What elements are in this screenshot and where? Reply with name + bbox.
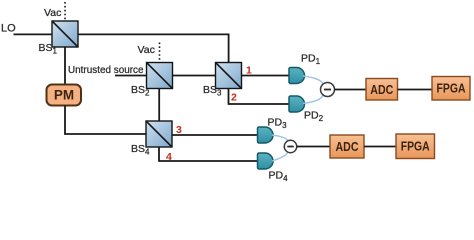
wire PD3 to subtractor (arc) (272, 135, 288, 142)
wire ADC to FPGA (bottom) (364, 146, 396, 148)
wire subtractor to ADC (bottom) (297, 146, 330, 148)
wire BS2 to BS4 (158, 89, 160, 122)
svg-text:LO: LO (1, 23, 16, 35)
svg-text:PD2: PD2 (304, 110, 324, 124)
svg-text:ADC: ADC (336, 139, 359, 154)
FPGA (bottom) (396, 134, 435, 159)
wire ADC to FPGA (top) (398, 89, 433, 91)
ADC (bottom) (330, 135, 364, 158)
svg-text:2: 2 (231, 92, 237, 104)
wire BS2 to BS3 (173, 75, 216, 77)
photodiode PD1 (289, 68, 305, 84)
FPGA (top) (432, 77, 470, 101)
wire LO input (14, 33, 53, 35)
svg-text:PD4: PD4 (269, 170, 289, 184)
wire LO rail to BS3 (78, 34, 229, 62)
wire BS4 to PD3 (172, 134, 258, 136)
wire vacuum dotted input BS2 (159, 43, 161, 63)
ADC (top) (366, 79, 398, 101)
photodiode PD3 (258, 127, 274, 143)
svg-text:FPGA: FPGA (437, 81, 466, 96)
svg-text:ADC: ADC (370, 82, 393, 97)
svg-text:PD1: PD1 (301, 53, 321, 67)
wire BS3 to PD1 (242, 75, 290, 77)
svg-text:Vac: Vac (138, 44, 155, 56)
wire PD2 to subtractor (arc) (303, 94, 323, 104)
subtractor (bottom) (284, 140, 296, 152)
beam splitter BS4 (146, 121, 172, 147)
wire PD4 to subtractor (arc) (272, 152, 288, 162)
photodiode PD4 (258, 153, 274, 169)
wire vacuum dotted input BS1 (64, 2, 66, 21)
wire PM to BS4 (65, 106, 146, 135)
wire BS1 to PM (64, 47, 66, 85)
phase modulator PM (47, 85, 82, 106)
photodiode PD2 (289, 96, 305, 112)
beam splitter BS3 (216, 63, 242, 89)
svg-text:FPGA: FPGA (401, 139, 430, 154)
wire BS3 to PD2 (229, 89, 290, 105)
wire PD1 to subtractor (arc) (303, 76, 323, 85)
svg-text:PD3: PD3 (268, 117, 288, 131)
wire subtractor to ADC (top) (334, 89, 366, 91)
subtractor (top) (321, 83, 335, 97)
wire BS4 to PD4 (159, 147, 258, 161)
svg-text:Vac: Vac (44, 7, 61, 19)
svg-text:Untrusted source: Untrusted source (68, 64, 144, 76)
beam splitter BS1 (52, 21, 78, 47)
beam splitter BS2 (147, 63, 173, 89)
wire untrusted source input (115, 75, 147, 77)
svg-text:PM: PM (54, 88, 74, 103)
